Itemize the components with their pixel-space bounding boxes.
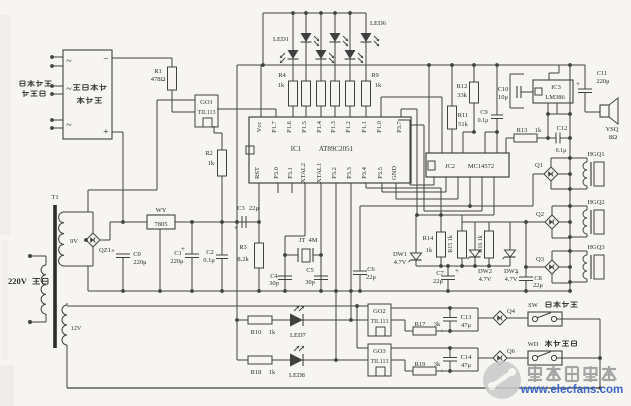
svg-text:12V: 12V xyxy=(71,325,82,332)
svg-text:+: + xyxy=(111,247,115,255)
svg-text:220V: 220V xyxy=(8,276,28,286)
svg-text:HGQ1: HGQ1 xyxy=(587,151,604,158)
svg-text:7805: 7805 xyxy=(155,221,168,228)
LED6 xyxy=(365,13,367,33)
bus to Q1 xyxy=(469,177,471,206)
svg-text:R4: R4 xyxy=(278,72,286,79)
wire GO1 left pin xyxy=(157,99,195,101)
svg-text:LED6: LED6 xyxy=(370,20,387,27)
svg-text:Q1: Q1 xyxy=(535,162,543,169)
capacitor C6 22u xyxy=(359,206,361,271)
transistor Q3 xyxy=(545,260,559,274)
GO3 output wires xyxy=(391,347,412,349)
capacitor C5 30p xyxy=(314,275,328,277)
Vcc stub xyxy=(260,65,262,117)
capacitor C12 0.1u xyxy=(537,137,556,139)
common vertical bus x570 xyxy=(569,65,571,291)
resistor R5 1k xyxy=(302,81,311,106)
svg-text:P3.4: P3.4 xyxy=(361,166,368,178)
LED2 xyxy=(305,13,307,33)
svg-text:1k: 1k xyxy=(426,247,433,254)
GO2 output wires xyxy=(391,307,412,309)
svg-text:R18: R18 xyxy=(251,369,262,376)
svg-text:TIL113: TIL113 xyxy=(370,359,388,365)
svg-text:1k: 1k xyxy=(208,160,215,167)
svg-text:47μ: 47μ xyxy=(461,322,472,329)
svg-text:TIL113: TIL113 xyxy=(197,110,215,116)
capacitor C7 22u xyxy=(447,266,449,276)
IC1 bottom stubs xyxy=(277,183,279,193)
resistor R7 1k xyxy=(331,81,340,106)
capacitor C2 0.1u xyxy=(221,222,223,255)
svg-text:C7: C7 xyxy=(436,270,444,277)
label 控制三相电热管 xyxy=(19,81,21,86)
svg-text:P1.3: P1.3 xyxy=(330,121,337,133)
svg-text:P3.7: P3.7 xyxy=(396,120,403,132)
svg-text:DW1: DW1 xyxy=(393,251,407,258)
svg-text:C9: C9 xyxy=(480,109,488,116)
resistor R14 1k xyxy=(437,232,446,257)
capacitor C13 47u xyxy=(449,308,451,318)
svg-text:P3.3: P3.3 xyxy=(346,167,353,179)
LED8 xyxy=(272,359,290,361)
transistor Q6 xyxy=(477,348,479,358)
svg-text:C1: C1 xyxy=(174,250,182,257)
transformer T1 xyxy=(53,205,57,348)
svg-text:P1.0: P1.0 xyxy=(376,121,383,133)
220V primary xyxy=(41,265,46,314)
svg-text:SW: SW xyxy=(528,302,539,309)
svg-text:JC2: JC2 xyxy=(445,163,455,170)
svg-text:HGQ3: HGQ3 xyxy=(587,244,604,251)
svg-text:R14: R14 xyxy=(423,235,435,242)
svg-text:~: ~ xyxy=(66,84,72,95)
crystal JT 4M xyxy=(304,183,306,236)
svg-text:3k: 3k xyxy=(434,321,441,328)
svg-text:C2: C2 xyxy=(206,249,214,256)
svg-text:P1.5: P1.5 xyxy=(301,121,308,133)
svg-text:+: + xyxy=(576,80,580,88)
zener DW3 4.7V xyxy=(509,222,511,250)
svg-text:Q6: Q6 xyxy=(507,348,516,355)
wires P3.2 P3.3 down xyxy=(335,183,337,360)
watermark logo xyxy=(483,361,521,399)
wire relay minus to R1 xyxy=(112,57,172,59)
svg-text:8.2k: 8.2k xyxy=(237,256,249,263)
resistor R8 1k xyxy=(346,81,355,106)
svg-text:C6: C6 xyxy=(367,266,375,273)
resistor R17 3k xyxy=(413,327,436,335)
svg-text:R15 1k: R15 1k xyxy=(448,235,454,253)
svg-text:R9: R9 xyxy=(371,72,379,79)
optocoupler GO2 TIL113 xyxy=(368,304,391,336)
svg-text:+: + xyxy=(234,224,238,232)
resistor R11 51k xyxy=(451,65,453,106)
svg-text:51k: 51k xyxy=(458,121,469,128)
speaker YSQ 8ohm xyxy=(585,111,600,113)
transistor Q4 xyxy=(477,308,479,318)
svg-text:33k: 33k xyxy=(457,92,468,99)
svg-text:HGQ2: HGQ2 xyxy=(587,199,604,206)
rail 266 xyxy=(416,265,510,267)
svg-text:WD: WD xyxy=(528,341,539,348)
wire RST column xyxy=(258,183,260,243)
svg-text:C5: C5 xyxy=(306,267,314,274)
resistor R10 1k xyxy=(237,319,248,321)
svg-text:C14: C14 xyxy=(461,354,473,361)
svg-text:R16 1k: R16 1k xyxy=(478,235,484,253)
svg-text:www.elecfans.com: www.elecfans.com xyxy=(520,384,623,396)
svg-text:22μ: 22μ xyxy=(366,274,377,281)
svg-text:T1: T1 xyxy=(51,194,58,201)
svg-text:GND: GND xyxy=(391,166,398,180)
capacitor C1 220u xyxy=(191,222,193,254)
svg-text:C8: C8 xyxy=(534,275,542,282)
svg-text:0.1μ: 0.1μ xyxy=(203,257,215,264)
svg-text:9V: 9V xyxy=(70,238,78,245)
wire GO1 to R2 xyxy=(213,126,215,133)
svg-text:GO3: GO3 xyxy=(373,348,386,355)
bus JC2 pin5 nest xyxy=(481,177,483,211)
bus JC2 pin1 nest xyxy=(433,177,435,185)
svg-text:Vcc: Vcc xyxy=(256,122,263,133)
svg-text:Q3: Q3 xyxy=(536,256,544,263)
resistor R15 1k xyxy=(461,222,463,231)
svg-text:QZ1: QZ1 xyxy=(99,247,111,254)
svg-text:R3: R3 xyxy=(239,244,247,251)
svg-text:Q4: Q4 xyxy=(507,308,516,315)
svg-text:P3.5: P3.5 xyxy=(377,167,384,179)
capacitor C8 22u xyxy=(525,222,527,277)
svg-text:DW2: DW2 xyxy=(478,268,492,275)
svg-text:JT: JT xyxy=(299,237,306,244)
svg-text:P1.6: P1.6 xyxy=(286,120,293,132)
svg-text:47μ: 47μ xyxy=(461,362,472,369)
svg-text:P3.1: P3.1 xyxy=(287,167,294,179)
svg-text:GO2: GO2 xyxy=(373,308,386,315)
svg-text:3k: 3k xyxy=(434,361,441,368)
bus 215 P3.7 zeners xyxy=(416,214,494,216)
svg-text:R10: R10 xyxy=(251,329,262,336)
svg-text:220μ: 220μ xyxy=(170,258,184,265)
coupler HGQ1 xyxy=(570,157,587,159)
12V winding xyxy=(62,305,67,345)
coupler HGQ2 xyxy=(570,205,587,207)
svg-text:R17: R17 xyxy=(415,321,427,328)
resistor R12 33k xyxy=(473,65,475,82)
9V winding xyxy=(59,212,64,266)
capacitor C0 220u xyxy=(116,253,130,255)
svg-text:~: ~ xyxy=(66,120,72,131)
svg-text:22μ: 22μ xyxy=(533,282,544,289)
svg-text:4M: 4M xyxy=(308,237,317,244)
rail to JC2 xyxy=(428,65,430,153)
svg-text:1k: 1k xyxy=(269,369,276,376)
LED anode top rail xyxy=(263,12,366,14)
svg-text:4.7V: 4.7V xyxy=(505,276,518,283)
wire GO1 output to P1.7 xyxy=(217,108,276,110)
svg-text:1k: 1k xyxy=(269,329,276,336)
capacitor C14 47u xyxy=(449,348,451,358)
bridge QZ1 xyxy=(86,233,100,247)
resistor R16 1k xyxy=(488,222,490,231)
optocoupler GO1 TIL113 xyxy=(195,95,218,127)
zener DW2 4.7V xyxy=(474,222,476,250)
svg-text:TIL113: TIL113 xyxy=(370,319,388,325)
svg-text:C13: C13 xyxy=(461,314,472,321)
wire P3.5 to JC2 xyxy=(381,183,383,192)
optocoupler GO3 TIL113 xyxy=(368,344,391,376)
svg-text:R11: R11 xyxy=(458,112,469,119)
resistor R9 1k xyxy=(362,81,371,106)
svg-text:–: – xyxy=(103,53,109,63)
line 222 to Q2 xyxy=(462,221,545,223)
svg-text:IC1: IC1 xyxy=(291,145,302,153)
svg-text:GO1: GO1 xyxy=(200,99,213,106)
+5V feeder vertical xyxy=(236,65,238,360)
svg-text:R19: R19 xyxy=(415,361,426,368)
LED4 xyxy=(334,13,336,33)
capacitor C11 220u xyxy=(584,65,586,89)
svg-text:Q2: Q2 xyxy=(536,211,544,218)
coupler HGQ3 xyxy=(570,250,587,252)
svg-text:AT89C2051: AT89C2051 xyxy=(319,145,354,153)
svg-text:30p: 30p xyxy=(269,280,279,287)
svg-text:8Ω: 8Ω xyxy=(609,134,617,141)
svg-text:+: + xyxy=(455,267,459,275)
transistor Q2 xyxy=(545,215,559,229)
transistor Q1 xyxy=(544,167,558,181)
bottom bus xyxy=(67,387,600,389)
svg-text:R13: R13 xyxy=(517,127,528,134)
wire R1 to GO1 xyxy=(172,111,195,113)
wire relay plus down xyxy=(112,131,123,133)
svg-text:C11: C11 xyxy=(597,70,608,77)
capacitor C4 30p xyxy=(278,275,292,277)
svg-text:22μ: 22μ xyxy=(433,278,444,285)
svg-text:+: + xyxy=(515,269,519,277)
svg-text:P1.7: P1.7 xyxy=(271,120,278,132)
svg-text:YSQ: YSQ xyxy=(605,126,618,133)
svg-text:LED8: LED8 xyxy=(289,372,305,379)
svg-text:22μ: 22μ xyxy=(249,205,260,212)
svg-text:C3: C3 xyxy=(237,205,245,212)
svg-text:0.1μ: 0.1μ xyxy=(556,148,567,154)
svg-text:4.7V: 4.7V xyxy=(394,259,407,266)
IC1 AT89C2051 xyxy=(249,117,411,183)
resistor R6 1k xyxy=(317,81,326,106)
resistor R3 8.2k xyxy=(255,243,264,268)
wire GND to JC2 xyxy=(395,183,397,199)
resistor R4 1k xyxy=(289,81,298,106)
LED5 xyxy=(349,13,351,50)
resistor R13 1k xyxy=(505,138,507,153)
svg-text:R2: R2 xyxy=(205,150,213,157)
svg-text:1k: 1k xyxy=(535,127,542,134)
switch SW 水位开关 xyxy=(507,317,528,319)
svg-text:~: ~ xyxy=(66,56,72,67)
svg-text:478Ω: 478Ω xyxy=(151,76,166,83)
wire GO1 down-left long xyxy=(156,100,158,190)
wire P3.7 long xyxy=(400,109,402,117)
+5V top rail xyxy=(237,64,585,66)
capacitor C3 22u xyxy=(175,221,259,223)
LED7 xyxy=(272,319,290,321)
capacitor C10 10u xyxy=(510,73,524,75)
relay input terminals xyxy=(50,55,54,59)
capacitor C9 0.1u xyxy=(496,65,498,115)
svg-text:P1.1: P1.1 xyxy=(361,121,368,133)
wire P3.4 to R14 xyxy=(365,183,367,188)
svg-text:P1.2: P1.2 xyxy=(345,121,352,133)
svg-text:P3.0: P3.0 xyxy=(273,167,280,179)
svg-text:C0: C0 xyxy=(133,251,141,258)
LED3 xyxy=(320,13,322,50)
svg-text:XTAL2: XTAL2 xyxy=(300,163,307,183)
IC2 JC2 MC14572 xyxy=(426,153,509,177)
svg-text:P1.4: P1.4 xyxy=(316,120,323,132)
svg-text:LM386: LM386 xyxy=(545,94,565,101)
svg-text:C10: C10 xyxy=(498,86,509,93)
svg-text:220μ: 220μ xyxy=(596,78,610,85)
IC3 output stubs xyxy=(547,103,549,114)
svg-text:30p: 30p xyxy=(305,279,315,286)
regulator WY 7805 xyxy=(110,221,147,223)
svg-text:LED1: LED1 xyxy=(273,36,289,43)
svg-text:10μ: 10μ xyxy=(498,94,509,101)
IC3 LM386 xyxy=(533,80,573,103)
resistor R2 1k xyxy=(218,150,227,176)
resistor R1 478ohm xyxy=(171,58,173,67)
switch return wire xyxy=(599,319,601,388)
svg-text:MC14572: MC14572 xyxy=(468,163,494,170)
scan smudges xyxy=(0,15,10,235)
svg-text:R12: R12 xyxy=(457,83,468,90)
switch WD 温度开关 xyxy=(507,357,528,359)
svg-text:IC3: IC3 xyxy=(551,84,561,91)
svg-text:4.7V: 4.7V xyxy=(479,276,492,283)
svg-text:C12: C12 xyxy=(557,125,568,132)
svg-text:XTAL1: XTAL1 xyxy=(316,163,323,183)
svg-text:RST: RST xyxy=(254,167,261,179)
svg-text:LED7: LED7 xyxy=(290,332,307,339)
bottom 12V line xyxy=(67,305,368,307)
LED1 xyxy=(292,13,294,50)
svg-text:R1: R1 xyxy=(154,68,162,75)
svg-text:220μ: 220μ xyxy=(133,259,147,266)
ground rail xyxy=(87,266,89,291)
svg-text:C4: C4 xyxy=(270,273,278,280)
resistor R18 1k xyxy=(236,320,238,360)
wire P1.0 to JC2 xyxy=(380,97,382,117)
svg-text:1k: 1k xyxy=(278,82,285,89)
svg-text:+: + xyxy=(103,127,109,138)
zener DW1 4.7V xyxy=(415,215,417,253)
svg-text:0.1μ: 0.1μ xyxy=(478,118,489,124)
resistor R19 3k xyxy=(413,367,436,375)
svg-text:1k: 1k xyxy=(375,82,382,89)
svg-text:P3.2: P3.2 xyxy=(331,167,338,179)
watermark text dianzifashaoyou xyxy=(528,367,542,369)
relay box SSR1 三相固态继电器 xyxy=(63,50,112,139)
svg-text:WY: WY xyxy=(156,207,167,214)
